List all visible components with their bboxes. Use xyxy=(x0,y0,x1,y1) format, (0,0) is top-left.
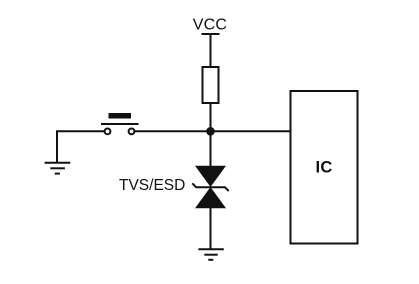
pushbutton switch S1 xyxy=(101,113,139,134)
svg-text:IC: IC xyxy=(315,159,332,177)
svg-text:VCC: VCC xyxy=(193,17,227,34)
wire TVS to ground xyxy=(210,208,212,250)
VCC power rail xyxy=(202,33,220,35)
resistor R1 xyxy=(203,67,219,103)
ground (left, switch) xyxy=(45,163,71,174)
TVS diode D1 (bidirectional) xyxy=(192,166,228,209)
junction dot node A xyxy=(206,127,215,136)
ground (bottom, TVS) xyxy=(198,249,223,259)
IC U1 xyxy=(291,91,358,244)
wire junction to TVS xyxy=(210,131,212,167)
wire ground corner to switch xyxy=(57,131,104,162)
svg-text:TVS/ESD: TVS/ESD xyxy=(119,177,185,194)
wire VCC to resistor xyxy=(210,34,212,67)
wire resistor to junction xyxy=(210,103,212,131)
wire switch to junction to IC xyxy=(135,130,291,132)
